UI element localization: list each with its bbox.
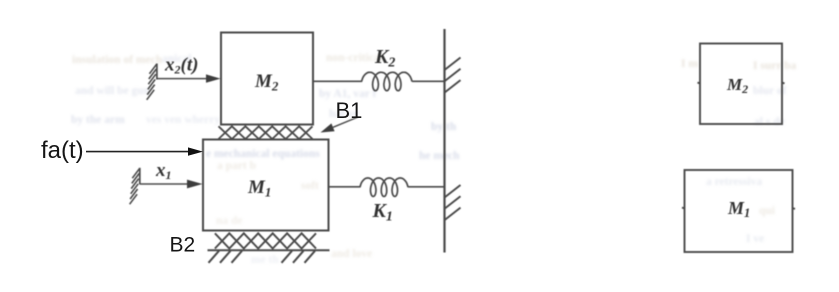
svg-text:ves ven wherry: ves ven wherry [146, 114, 220, 126]
damper B1 crosshatch band [219, 126, 313, 139]
spring K2 wire left [313, 80, 362, 82]
mass M2 box [221, 33, 313, 125]
ground hatching left group [209, 251, 243, 263]
svg-text:by the arm: by the arm [71, 114, 125, 126]
wall anchor for x1 [130, 168, 140, 204]
svg-text:soft: soft [301, 180, 319, 192]
svg-text:qui: qui [759, 205, 776, 217]
spring K1 coil [360, 178, 408, 196]
svg-text:I surr ba: I surr ba [753, 60, 796, 72]
ground line under B2 [208, 249, 330, 251]
svg-text:K2: K2 [374, 46, 395, 71]
wall hatches lower [445, 185, 461, 220]
ground hatching right group [282, 251, 316, 263]
svg-text:B1: B1 [336, 98, 363, 123]
svg-text:M1: M1 [727, 198, 750, 220]
svg-text:me th: me th [251, 254, 279, 266]
svg-text:M2: M2 [726, 75, 748, 96]
svg-text:fa(t): fa(t) [41, 137, 84, 164]
svg-text:a part b: a part b [217, 160, 256, 172]
svg-text:and will be gun: and will be gun [75, 85, 151, 97]
spring K2 coil [362, 72, 412, 90]
svg-text:x2(t): x2(t) [164, 55, 198, 77]
spring K1 wire left [329, 186, 361, 188]
svg-text:and love: and love [331, 248, 372, 260]
wall anchor for x2 [147, 64, 157, 100]
right wall line [443, 29, 445, 253]
svg-text:M2: M2 [254, 71, 279, 94]
right panel: mass M1 box [685, 170, 793, 252]
svg-text:I m: I m [681, 58, 698, 70]
right panel: mass M2 box [682, 44, 795, 253]
mass M1 box [203, 140, 329, 231]
scanned diagram group [130, 29, 461, 263]
svg-text:M1: M1 [247, 177, 271, 200]
svg-text:x1: x1 [155, 160, 172, 182]
edge nubs M2 box [698, 83, 701, 84]
x1 arrow [140, 180, 203, 189]
spring K1 wire right [408, 186, 445, 188]
spring K2 wire right [412, 80, 445, 82]
svg-text:a retressiva: a retressiva [706, 176, 762, 188]
B1 pointer arrow [321, 117, 359, 133]
svg-text:insulation of mech: insulation of mech [72, 54, 163, 66]
svg-text:he mech: he mech [419, 150, 460, 162]
faint bleed-through background text [71, 52, 796, 266]
svg-text:I ve: I ve [746, 233, 764, 245]
svg-text:al s de: al s de [754, 116, 785, 128]
edge nubs M1 box [682, 208, 685, 209]
wall hatches upper [445, 58, 461, 93]
x2 arrow [157, 74, 221, 82]
svg-text:K1: K1 [372, 200, 393, 225]
svg-text:e mechanical equations: e mechanical equations [206, 148, 320, 160]
fa(t) arrow [86, 147, 203, 155]
svg-text:B2: B2 [170, 234, 196, 257]
svg-text:na de: na de [216, 215, 243, 227]
damper B2 crosshatch band [215, 233, 316, 248]
